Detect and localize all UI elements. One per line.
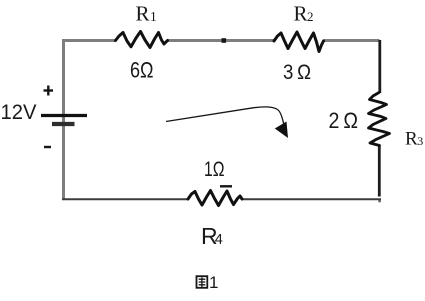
caption glyph 圖 (drawn) xyxy=(197,276,208,288)
caption text 1 xyxy=(209,273,218,292)
value 1 ohm xyxy=(204,157,225,181)
svg-text:3: 3 xyxy=(417,134,423,148)
svg-text:1Ω: 1Ω xyxy=(204,157,225,181)
svg-text:R: R xyxy=(405,128,418,149)
svg-text:2 Ω: 2 Ω xyxy=(329,108,359,133)
resistor R1 zigzag xyxy=(116,32,168,48)
wire right side lower xyxy=(378,146,381,197)
label R4 xyxy=(201,223,223,249)
resistor R3 zigzag (vertical) xyxy=(369,93,390,146)
svg-text:1: 1 xyxy=(150,9,157,24)
battery minus sign xyxy=(44,146,51,148)
wire top-right segment xyxy=(324,39,380,42)
wire left side xyxy=(62,39,65,199)
stray overbar mark above R4 xyxy=(220,185,232,187)
wire top-middle segment xyxy=(168,39,275,42)
current direction arrow (curved) xyxy=(166,107,288,138)
resistor R4 zigzag xyxy=(188,191,242,206)
svg-text:R: R xyxy=(294,1,308,25)
svg-text:6Ω: 6Ω xyxy=(130,58,154,83)
battery B1 positive plate xyxy=(41,114,87,117)
battery plus sign xyxy=(44,86,54,96)
wire top-left segment xyxy=(62,39,116,42)
svg-text:4: 4 xyxy=(215,232,223,248)
svg-text:12V: 12V xyxy=(1,101,37,124)
label R2 xyxy=(294,1,314,25)
svg-text:R: R xyxy=(136,1,150,25)
svg-text:1: 1 xyxy=(209,273,218,292)
label R1 xyxy=(136,1,157,25)
label R3 xyxy=(405,128,423,149)
value 2 ohm xyxy=(329,108,359,133)
value 6 ohm xyxy=(130,58,154,83)
wire right side upper xyxy=(378,40,381,93)
wire bottom-left segment xyxy=(62,198,188,200)
wire stub below bottom-right corner xyxy=(378,199,380,202)
resistor R2 zigzag xyxy=(274,32,324,52)
battery B1 negative plate xyxy=(52,122,75,126)
junction dot on top wire xyxy=(222,38,227,43)
value 3 ohm xyxy=(283,60,311,84)
svg-text:3 Ω: 3 Ω xyxy=(283,60,311,84)
svg-text:2: 2 xyxy=(307,9,314,24)
battery label 12V xyxy=(1,101,37,124)
wire bottom-right segment xyxy=(242,198,381,200)
